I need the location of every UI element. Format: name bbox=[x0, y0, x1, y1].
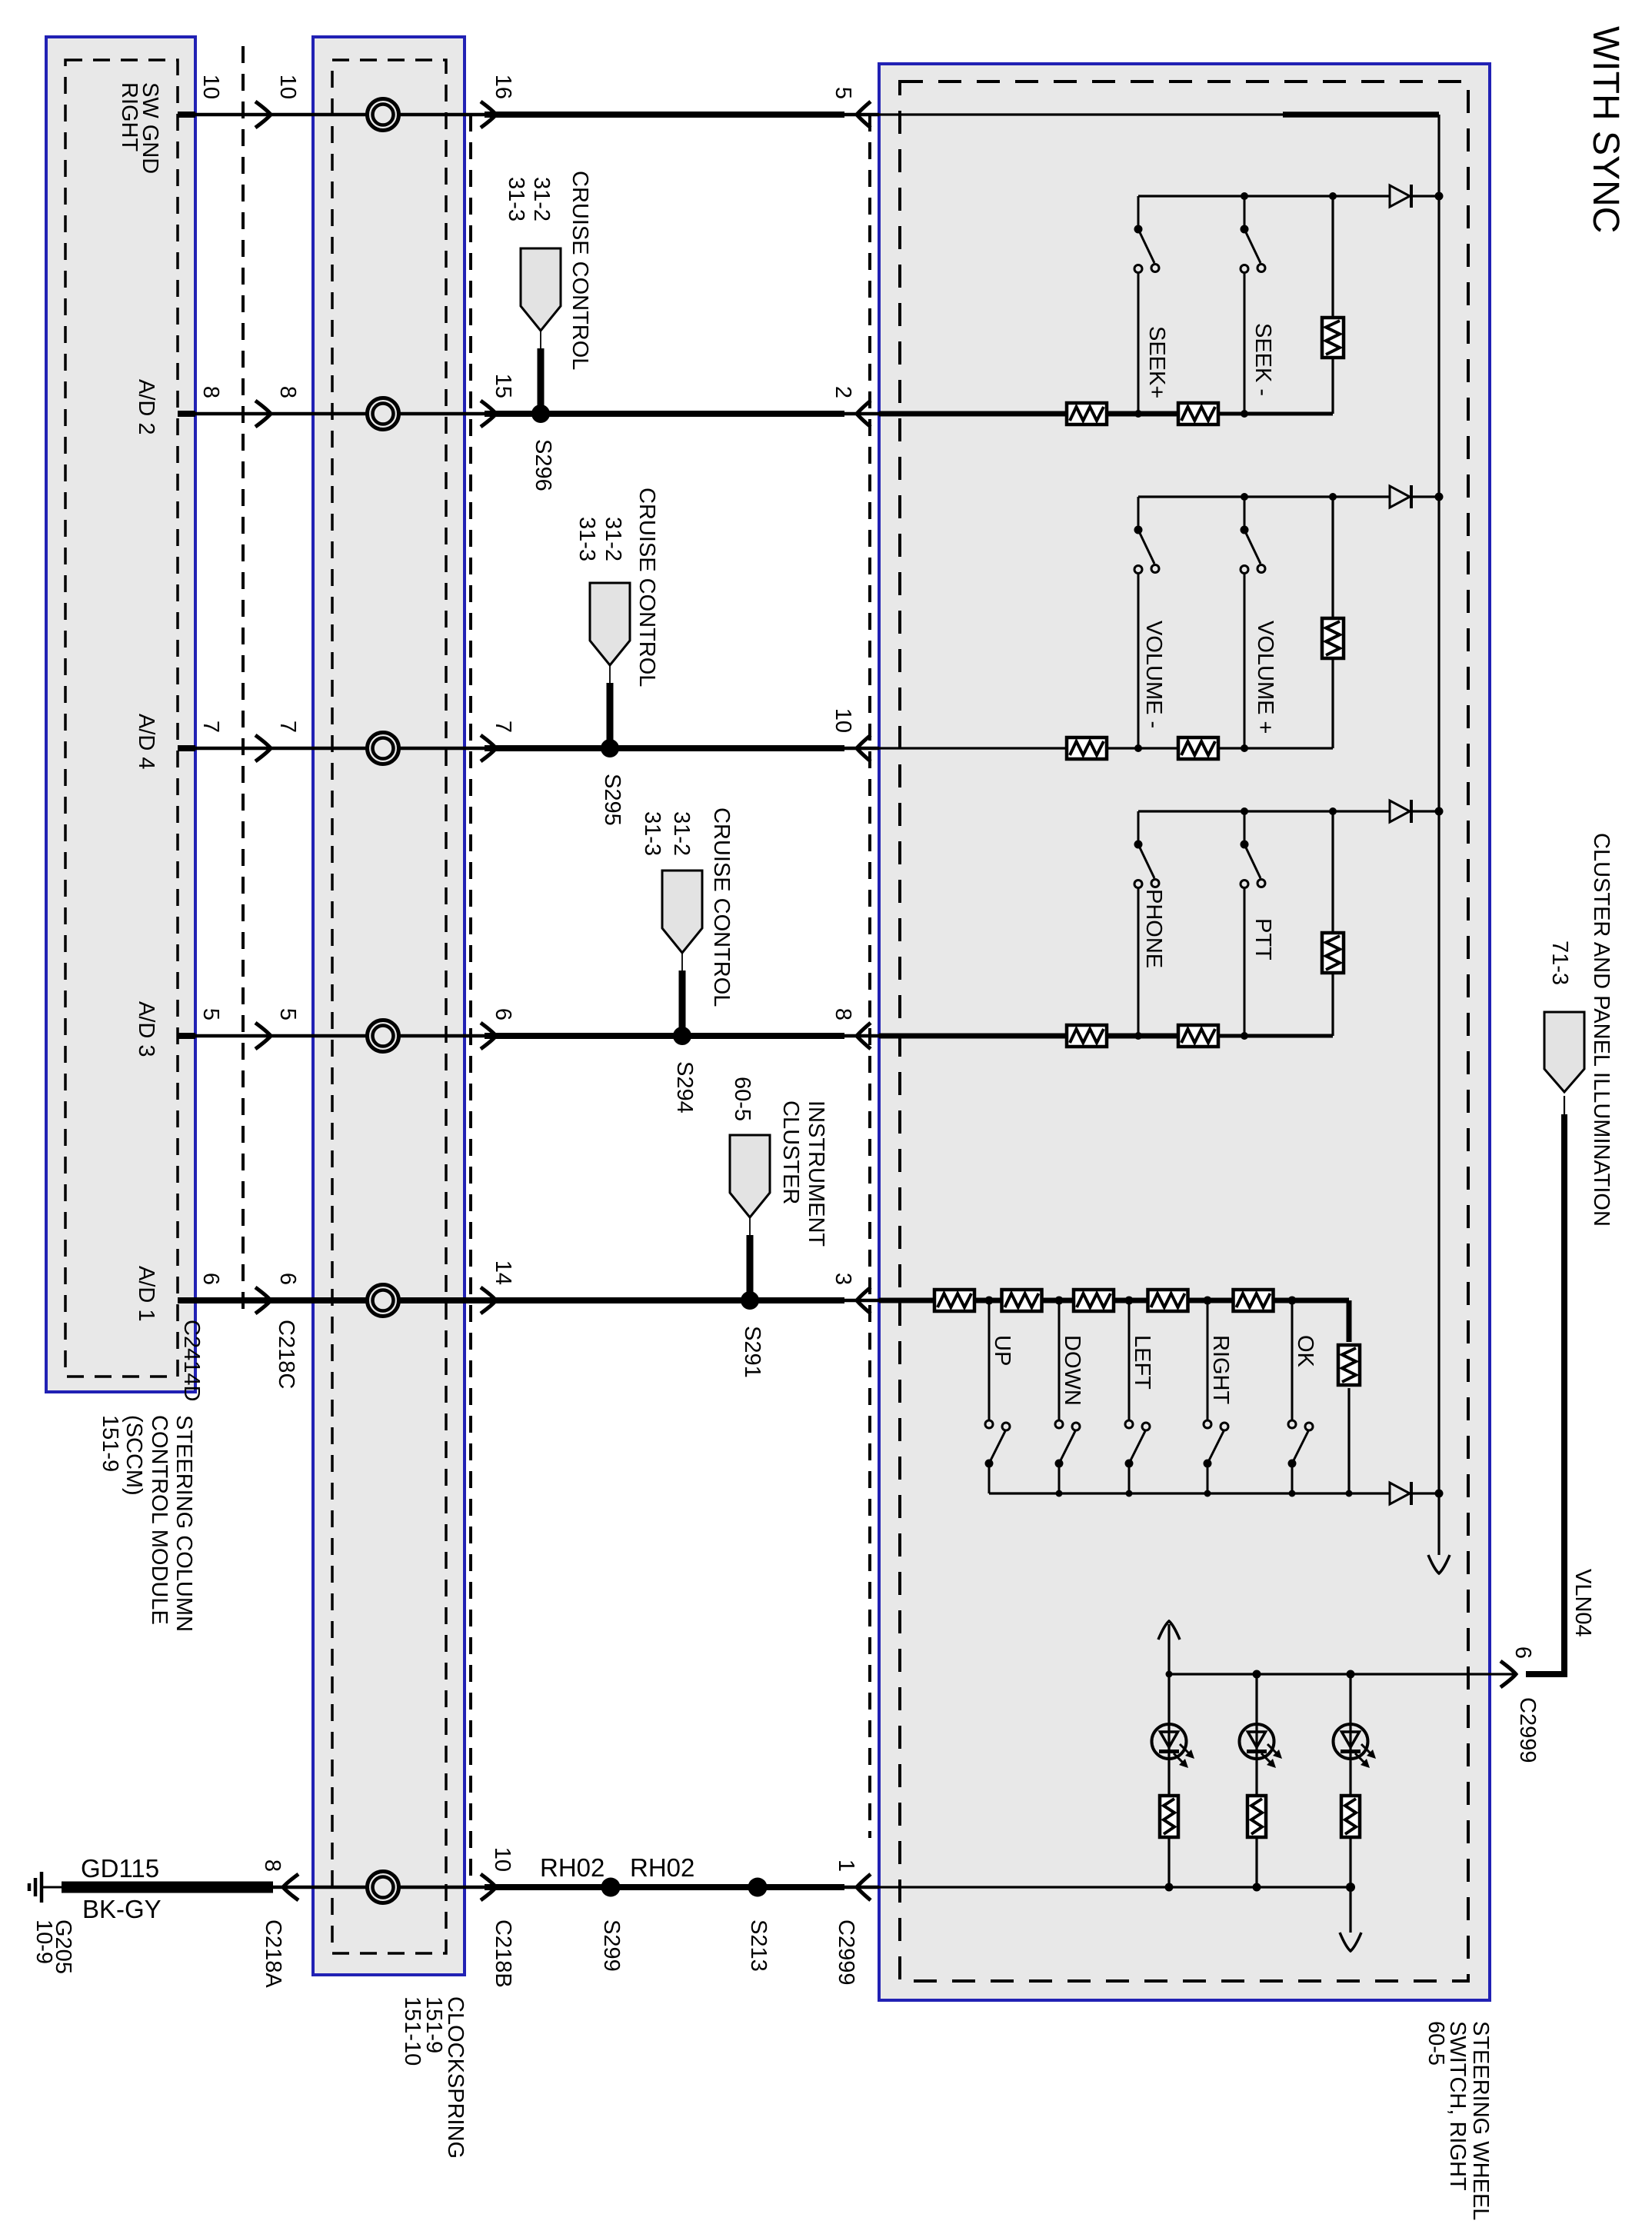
svg-text:DOWN: DOWN bbox=[1060, 1335, 1084, 1406]
svg-text:VOLUME +: VOLUME + bbox=[1253, 621, 1277, 734]
svg-text:S294: S294 bbox=[672, 1061, 697, 1114]
svg-text:UP: UP bbox=[990, 1335, 1014, 1366]
svg-text:A/D 2: A/D 2 bbox=[134, 379, 158, 435]
svg-text:8: 8 bbox=[198, 386, 223, 398]
svg-text:A/D 3: A/D 3 bbox=[134, 1001, 158, 1057]
svg-text:10-9: 10-9 bbox=[32, 1919, 56, 1964]
svg-text:STEERING WHEEL: STEERING WHEEL bbox=[1468, 2021, 1493, 2220]
svg-text:STEERING COLUMN: STEERING COLUMN bbox=[172, 1415, 196, 1632]
svg-text:CONTROL MODULE: CONTROL MODULE bbox=[147, 1415, 172, 1625]
svg-text:5: 5 bbox=[198, 1008, 223, 1020]
svg-text:CRUISE CONTROL: CRUISE CONTROL bbox=[634, 488, 659, 687]
svg-text:31-3: 31-3 bbox=[575, 517, 599, 561]
svg-text:15: 15 bbox=[491, 374, 515, 398]
svg-text:OK: OK bbox=[1293, 1335, 1317, 1368]
svg-text:S213: S213 bbox=[746, 1919, 771, 1972]
svg-text:CRUISE CONTROL: CRUISE CONTROL bbox=[568, 171, 592, 370]
svg-text:BK-GY: BK-GY bbox=[82, 1895, 162, 1923]
svg-text:S299: S299 bbox=[599, 1919, 624, 1972]
svg-text:6: 6 bbox=[198, 1273, 223, 1285]
svg-text:C2999: C2999 bbox=[834, 1919, 858, 1985]
svg-text:6: 6 bbox=[1510, 1646, 1535, 1659]
svg-text:VOLUME -: VOLUME - bbox=[1141, 621, 1166, 728]
svg-text:PHONE: PHONE bbox=[1141, 889, 1166, 968]
svg-text:8: 8 bbox=[275, 386, 300, 398]
svg-text:C2414D: C2414D bbox=[179, 1320, 204, 1401]
svg-text:71-3: 71-3 bbox=[1547, 941, 1572, 985]
svg-text:RH02: RH02 bbox=[630, 1853, 694, 1882]
svg-text:8: 8 bbox=[831, 1008, 855, 1020]
svg-text:31-2: 31-2 bbox=[669, 811, 694, 856]
svg-text:31-3: 31-3 bbox=[640, 811, 664, 856]
svg-text:7: 7 bbox=[275, 721, 300, 733]
svg-text:SEEK -: SEEK - bbox=[1251, 323, 1275, 396]
svg-text:6: 6 bbox=[491, 1008, 515, 1020]
svg-text:5: 5 bbox=[831, 87, 855, 99]
svg-text:WITH SYNC: WITH SYNC bbox=[1585, 26, 1626, 233]
svg-text:S296: S296 bbox=[531, 439, 555, 491]
svg-text:31-3: 31-3 bbox=[504, 177, 528, 221]
svg-text:31-2: 31-2 bbox=[529, 177, 554, 221]
svg-text:(SCCM): (SCCM) bbox=[122, 1415, 146, 1496]
svg-text:10: 10 bbox=[490, 1847, 515, 1872]
svg-text:PTT: PTT bbox=[1251, 918, 1275, 961]
svg-text:5: 5 bbox=[275, 1008, 300, 1020]
svg-text:151-9: 151-9 bbox=[98, 1415, 122, 1472]
svg-text:LEFT: LEFT bbox=[1130, 1335, 1154, 1390]
svg-text:7: 7 bbox=[198, 721, 223, 733]
svg-text:S295: S295 bbox=[600, 774, 624, 826]
svg-text:2: 2 bbox=[831, 386, 855, 398]
svg-text:7: 7 bbox=[491, 721, 515, 733]
svg-text:C2999: C2999 bbox=[1515, 1697, 1540, 1763]
svg-text:8: 8 bbox=[260, 1859, 285, 1872]
svg-text:RH02: RH02 bbox=[540, 1853, 605, 1882]
svg-text:INSTRUMENT: INSTRUMENT bbox=[804, 1100, 828, 1247]
svg-text:CLUSTER: CLUSTER bbox=[778, 1100, 803, 1204]
svg-text:14: 14 bbox=[491, 1260, 515, 1285]
svg-text:151-10: 151-10 bbox=[400, 1996, 425, 2066]
svg-text:C218B: C218B bbox=[491, 1919, 515, 1988]
svg-text:A/D 1: A/D 1 bbox=[134, 1266, 158, 1322]
svg-text:C218A: C218A bbox=[261, 1919, 285, 1988]
svg-text:3: 3 bbox=[831, 1273, 855, 1285]
svg-text:10: 10 bbox=[198, 75, 223, 99]
svg-text:CLUSTER AND PANEL ILLUMINATION: CLUSTER AND PANEL ILLUMINATION bbox=[1589, 833, 1614, 1227]
svg-text:10: 10 bbox=[831, 708, 855, 733]
svg-text:6: 6 bbox=[275, 1273, 300, 1285]
svg-text:60-5: 60-5 bbox=[1424, 2021, 1448, 2066]
svg-text:C218C: C218C bbox=[274, 1320, 298, 1389]
svg-text:16: 16 bbox=[491, 75, 515, 99]
svg-text:VLN04: VLN04 bbox=[1570, 1569, 1595, 1637]
svg-text:10: 10 bbox=[275, 75, 300, 99]
svg-text:1: 1 bbox=[834, 1859, 858, 1872]
svg-text:60-5: 60-5 bbox=[730, 1077, 754, 1121]
svg-text:RIGHT: RIGHT bbox=[1208, 1335, 1233, 1405]
svg-text:31-2: 31-2 bbox=[601, 517, 625, 561]
svg-text:A/D 4: A/D 4 bbox=[134, 714, 158, 770]
svg-text:GD115: GD115 bbox=[81, 1854, 159, 1883]
svg-text:CRUISE CONTROL: CRUISE CONTROL bbox=[709, 807, 734, 1007]
svg-text:RIGHT: RIGHT bbox=[117, 82, 142, 152]
svg-text:S291: S291 bbox=[740, 1326, 764, 1378]
svg-text:SEEK+: SEEK+ bbox=[1144, 326, 1169, 398]
